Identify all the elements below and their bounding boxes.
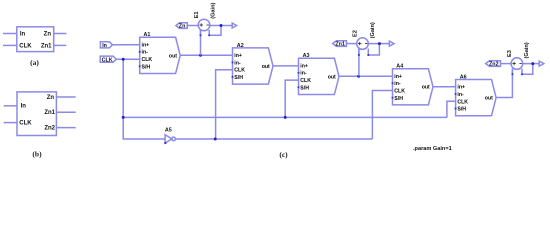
wire E1 control vertical [200,30,202,56]
svg-text:Zn: Zn [44,31,52,37]
svg-text:(a): (a) [30,58,39,67]
junction upper bus left [122,116,125,119]
wire E1 out [210,25,233,27]
svg-text:Zn1: Zn1 [335,41,345,47]
svg-text:Zn1: Zn1 [41,43,52,49]
junction lower bus A2 tap [214,138,217,141]
svg-text:CLK: CLK [142,57,153,63]
wire A6 out [496,69,512,97]
svg-text:in-: in- [394,81,401,87]
svg-text:in-: in- [457,92,464,98]
svg-text:(Gain): (Gain) [210,3,216,19]
sample block A2 [232,48,273,84]
svg-text:A1: A1 [144,32,151,38]
svg-text:E3: E3 [507,50,513,57]
wire Zn2 to E3 [501,63,512,65]
svg-text:out: out [262,64,270,70]
block (a) body [17,27,54,52]
sample block A4 [392,69,433,105]
wire Zn to E1 [187,25,198,27]
svg-text:(b): (b) [32,150,42,159]
svg-text:(Gain): (Gain) [524,42,530,58]
junction CLK tap [122,58,125,61]
junction E1 tap [199,54,202,57]
svg-text:Zn: Zn [47,95,55,101]
wire (a) pin In [3,33,17,35]
wire A3 out [339,75,392,77]
svg-text:in-: in- [142,50,149,56]
svg-text:S/H: S/H [300,85,309,91]
wire (a) pin CLK [3,44,17,46]
output port E3 [539,61,544,66]
svg-text:CLK: CLK [19,43,32,49]
junction E1 loop [220,24,223,27]
output port E2 [389,41,394,46]
net flag Zn [176,23,187,30]
svg-text:S/H: S/H [142,64,151,70]
svg-text:in-: in- [234,60,241,66]
svg-text:Zn: Zn [179,23,186,29]
wire (a) pin Zn1 [54,44,67,46]
svg-text:S/H: S/H [457,107,466,113]
svg-text:A5: A5 [165,128,172,134]
svg-text:A3: A3 [303,53,310,59]
svg-text:in+: in+ [300,63,308,69]
svg-text:in-: in- [300,71,307,77]
svg-text:(Gain): (Gain) [370,22,376,38]
wire CLK to A1 [116,58,139,60]
svg-text:in+: in+ [457,85,465,91]
wire A6 CLK [447,101,456,117]
junction E2 loop [378,42,381,45]
svg-text:CLK: CLK [394,89,405,95]
wire (b) pin Zn1 [56,111,75,113]
wire E2 out [368,43,389,45]
junction E2 tap [357,75,360,78]
sample block A6 [455,80,496,116]
net flag Zn1 [333,41,347,48]
svg-text:Zn2: Zn2 [44,126,55,132]
svg-text:.param Gain=1: .param Gain=1 [413,146,452,152]
wire A1 out [180,54,233,56]
svg-text:A6: A6 [460,74,467,80]
svg-text:Zn1: Zn1 [44,110,55,116]
inverter A5 pin marker [164,142,166,144]
svg-text:A2: A2 [237,43,244,49]
svg-text:CLK: CLK [102,57,113,63]
svg-text:out: out [422,85,430,91]
svg-text:out: out [169,53,177,59]
wire Zn1 to E2 [346,43,357,45]
sample block A1 [139,37,180,73]
wire (b) pin CLK [4,122,17,124]
svg-text:A4: A4 [396,64,403,70]
svg-text:S/H: S/H [394,96,403,102]
wire A2 CLK [216,70,233,139]
output port E1 [232,23,236,28]
svg-text:E2: E2 [353,30,359,37]
svg-text:Zn2: Zn2 [489,62,499,68]
sample block A3 [298,58,339,94]
block (b) body [17,92,56,136]
wire (b) pin Zn2 [56,127,75,129]
svg-text:in+: in+ [394,74,402,80]
wire inverted clock bus [175,138,372,140]
wire (b) pin Zn [56,96,75,98]
vcvs E1 [198,19,221,35]
svg-text:In: In [21,104,27,110]
wire In to A1 [113,44,140,46]
vcvs E2 [357,38,380,55]
junction upper bus A3 tap [284,116,287,119]
svg-text:In: In [102,43,107,49]
wire (b) pin In [4,105,17,107]
svg-text:out: out [328,74,336,80]
vcvs E3 [511,58,533,74]
net flag Zn2 [486,61,501,68]
wire CLK vertical feed [123,59,165,139]
svg-text:S/H: S/H [234,75,243,81]
port flag CLK [100,56,116,62]
svg-text:CLK: CLK [457,99,468,105]
svg-text:out: out [485,96,493,102]
wire (a) pin Zn [54,33,67,35]
inverter A5 [165,135,175,143]
junction E3 loop [531,62,534,65]
svg-text:E1: E1 [194,11,200,18]
svg-text:in+: in+ [234,53,242,59]
wire E3 out [522,63,539,65]
port flag In [100,42,112,48]
wire A3 CLK [285,80,299,117]
svg-text:in+: in+ [142,42,150,48]
svg-text:CLK: CLK [300,78,311,84]
wire A4 CLK [372,91,392,140]
svg-text:In: In [20,31,26,37]
svg-text:CLK: CLK [234,68,245,74]
svg-text:(c): (c) [279,150,288,159]
svg-text:CLK: CLK [19,121,32,127]
wire A4 out [433,86,456,88]
wire upper CLK bus [123,116,447,118]
wire A2 out [274,65,299,67]
wire E2 control vertical [358,49,360,77]
